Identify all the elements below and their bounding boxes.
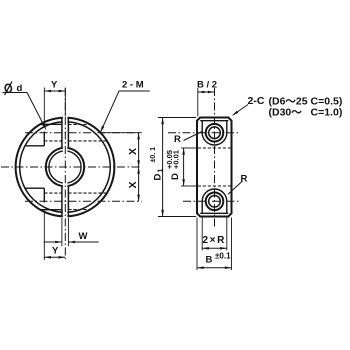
dim X line bbox=[138, 133, 140, 202]
svg-text:R: R bbox=[174, 134, 181, 145]
upper screw hole inner bbox=[209, 127, 221, 139]
dim Y top extension lines bbox=[43, 88, 45, 124]
upper tap hole hidden line bottom bbox=[68, 140, 106, 142]
svg-text:2-C: 2-C bbox=[248, 95, 265, 107]
slit line top-left bbox=[61, 117, 63, 148]
dim R lower leader bbox=[228, 181, 243, 194]
svg-text:(D30～ C=1.0): (D30～ C=1.0) bbox=[269, 107, 343, 119]
horizontal center line bbox=[1, 166, 142, 168]
front view bore chamfer circle bbox=[49, 151, 81, 183]
svg-text:W: W bbox=[79, 231, 88, 242]
front view outer circle bbox=[16, 118, 115, 217]
slit line top-right bbox=[67, 117, 69, 148]
lower screw hole outer bbox=[206, 193, 224, 211]
svg-text:R: R bbox=[241, 174, 248, 185]
dim Y bottom line bbox=[44, 256, 65, 258]
dim 2xR extensions bbox=[201, 218, 203, 251]
upper pocket bottom edge bbox=[25, 145, 44, 147]
vertical center line bbox=[64, 88, 66, 259]
side view upper axis bbox=[168, 132, 241, 134]
svg-text:±0. 1: ±0. 1 bbox=[150, 147, 157, 163]
lower clearance hole hidden line bbox=[44, 192, 62, 194]
lower pocket face line bbox=[43, 188, 45, 202]
dim phi-d leader bbox=[3, 93, 45, 127]
dim W line bbox=[44, 241, 62, 243]
svg-text:B: B bbox=[206, 255, 213, 266]
dim 2-C leader bbox=[233, 105, 248, 116]
side view bore hidden line top bbox=[198, 147, 231, 149]
dim D bore line bbox=[183, 148, 185, 186]
dim B line bbox=[197, 267, 232, 269]
label phi d bbox=[4, 82, 12, 96]
dim B/2 extension bbox=[197, 88, 199, 117]
lower tap hole hidden line top bbox=[68, 192, 106, 194]
upper pocket top edge bbox=[40, 123, 62, 125]
dim D1 extension lines bbox=[158, 117, 196, 119]
lower screw pocket bbox=[202, 189, 227, 213]
slit gap whiteout bbox=[63, 114, 68, 220]
svg-text:2 - M: 2 - M bbox=[122, 80, 144, 91]
lower screw hole inner bbox=[209, 196, 221, 208]
lower pocket bottom edge bbox=[40, 209, 62, 211]
label D bore with tolerance bbox=[165, 150, 181, 180]
upper screw axis line bbox=[25, 132, 142, 134]
svg-text:Y: Y bbox=[51, 80, 58, 91]
dim Y bottom extensions bbox=[43, 211, 45, 261]
svg-text:D: D bbox=[153, 174, 164, 181]
dim Y top line bbox=[44, 90, 65, 92]
svg-text:2×R: 2×R bbox=[203, 235, 226, 246]
upper pocket face line bbox=[43, 132, 45, 146]
dim R upper leader bbox=[184, 132, 203, 141]
svg-text:d: d bbox=[17, 83, 23, 94]
svg-text:±0.1: ±0.1 bbox=[215, 252, 231, 261]
front view bore circle bbox=[46, 148, 84, 186]
slit line bottom-left bbox=[61, 186, 63, 217]
dim 2-M leader bbox=[101, 91, 150, 132]
svg-text:X: X bbox=[127, 148, 139, 155]
lower tap hole hidden line bottom bbox=[68, 209, 90, 211]
upper screw pocket bbox=[202, 121, 227, 145]
side view body outline bbox=[197, 118, 232, 217]
lower pocket top edge bbox=[25, 187, 44, 189]
side view vertical center line bbox=[214, 88, 216, 229]
dim W extensions bbox=[61, 218, 63, 246]
dim X extension upper bbox=[101, 132, 142, 134]
side view bottom chamfer line bbox=[200, 212, 228, 214]
label D1 with tolerance bbox=[150, 147, 165, 181]
upper clearance hole hidden line bbox=[44, 140, 62, 142]
svg-text:X: X bbox=[127, 181, 139, 188]
svg-text:Y: Y bbox=[52, 246, 59, 257]
svg-text:D: D bbox=[170, 173, 181, 180]
side view lower axis bbox=[183, 200, 241, 202]
front view chamfer ring circle bbox=[20, 122, 111, 213]
dim 2xR line bbox=[202, 247, 227, 249]
slit line bottom-right bbox=[67, 186, 69, 217]
svg-text:1: 1 bbox=[158, 169, 165, 173]
svg-text:B / 2: B / 2 bbox=[197, 80, 217, 91]
upper tap hole hidden line top bbox=[68, 124, 90, 126]
dim B extensions bbox=[196, 218, 198, 271]
side view top chamfer line bbox=[200, 120, 228, 122]
dim B/2 line bbox=[198, 91, 215, 93]
upper screw hole outer bbox=[206, 124, 224, 142]
lower screw axis line bbox=[25, 200, 142, 202]
svg-text:+0.01: +0.01 bbox=[172, 150, 181, 169]
side view bore hidden line bottom bbox=[198, 185, 231, 187]
dim D1 line bbox=[162, 118, 164, 217]
dim D bore extension lines bbox=[181, 147, 197, 149]
